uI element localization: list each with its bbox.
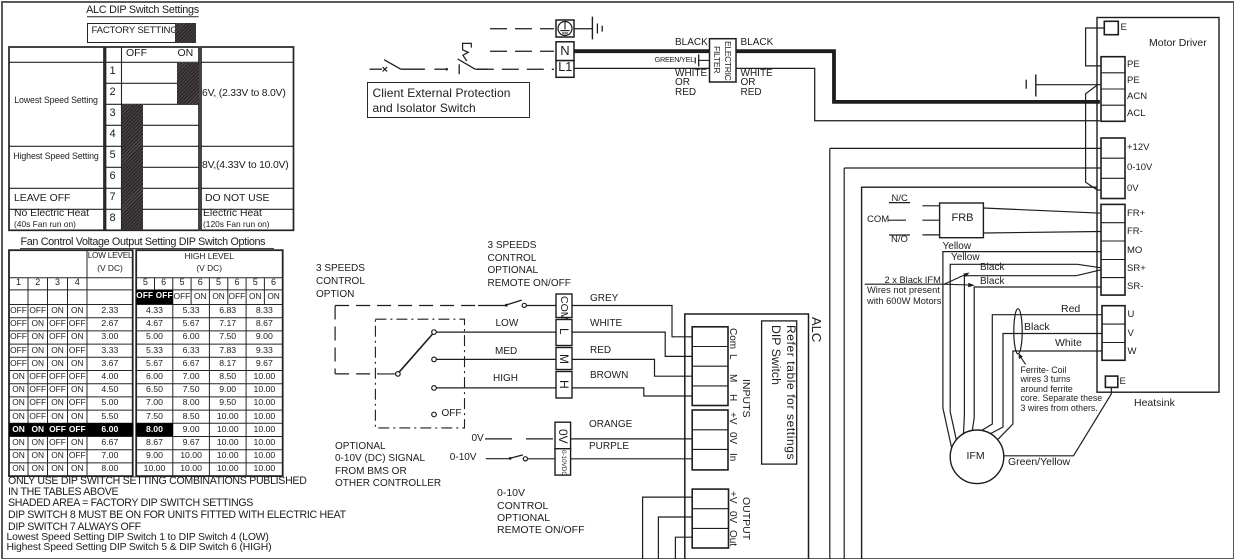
ALC controller box bbox=[685, 314, 809, 559]
wire +12V to ALC (down) bbox=[830, 147, 1101, 149]
dip table: label column box bbox=[9, 47, 104, 230]
wire dashed selector com feed bottom bbox=[335, 373, 379, 375]
wire BROWN H to ALC H bbox=[572, 388, 692, 396]
wire ALC output 0V down bbox=[658, 517, 692, 559]
label line 2x Black IFM bbox=[865, 283, 944, 285]
selector contact OFF bbox=[432, 412, 437, 417]
wire PE to 0V link bbox=[1086, 85, 1102, 190]
voltage table right grid bbox=[136, 250, 283, 476]
row labels bbox=[12, 96, 100, 105]
wire ALC output Out down bbox=[675, 537, 692, 559]
electric filter box bbox=[710, 39, 737, 82]
driver terminals FR/MO/SR bbox=[1101, 204, 1125, 295]
terminal E bottom bbox=[1105, 376, 1117, 387]
client protection note box bbox=[367, 82, 530, 118]
junction dot bbox=[445, 68, 448, 71]
wire dashed selector com feed top bbox=[335, 305, 478, 307]
motor labels bbox=[967, 451, 985, 462]
remote switch blade bbox=[507, 300, 522, 305]
wire ORANGE 0V to ALC 0V bbox=[571, 438, 693, 440]
labels 0V / 0-10V bbox=[472, 434, 484, 444]
wire Black 1 SR+ to IFM bbox=[964, 270, 1102, 434]
info column bbox=[202, 89, 286, 99]
wire BLACK mains thick N to ACN bbox=[574, 51, 1100, 102]
relay labels bbox=[892, 194, 908, 204]
FRB pin stub COM bbox=[922, 219, 939, 221]
selector blade bbox=[399, 334, 432, 372]
terminal earth box bbox=[556, 20, 574, 37]
breaker S2 trip curl bbox=[463, 43, 472, 61]
label BLACK right bbox=[741, 38, 774, 48]
title underline ALC DIP Switch Settings bbox=[87, 16, 199, 18]
terminal COM box bbox=[556, 294, 572, 318]
left terminal rotated labels bbox=[559, 296, 570, 321]
ALC input connector +V/0V/In bbox=[692, 410, 728, 470]
ground symbol (chassis) bbox=[591, 17, 593, 40]
wire RED M to ALC M bbox=[572, 359, 692, 376]
dip table: right info box bbox=[201, 47, 294, 230]
wire PURPLE 0-10V to ALC In bbox=[571, 458, 693, 460]
ALC output connector +V/0V/Out bbox=[692, 489, 728, 548]
driver terminals U/V/W bbox=[1102, 306, 1125, 361]
factory setting hatch swatch bbox=[175, 23, 196, 43]
wire dashed N supply bbox=[490, 50, 554, 52]
terminal L1 box bbox=[556, 61, 574, 78]
wire Green/Yellow E to IFM bbox=[1004, 387, 1112, 455]
voltage table left grid bbox=[9, 250, 133, 476]
motor assembly enclosure box bbox=[862, 187, 1097, 559]
motor IFM circle bbox=[950, 430, 1004, 484]
wire dashed selector com feed left bbox=[334, 306, 336, 374]
factory setting legend box bbox=[87, 23, 196, 43]
wire HIGH contact to H bbox=[436, 387, 556, 389]
driver terminals +12V/0-10V/0V bbox=[1101, 138, 1125, 199]
label WHITE OR RED right bbox=[741, 69, 773, 97]
earth symbol in circle bbox=[558, 22, 572, 36]
wire WHITE L to ALC L bbox=[572, 332, 692, 356]
breaker S2 right lead bbox=[475, 68, 488, 70]
ground symbol at PE bbox=[1025, 80, 1027, 89]
label GREEN/YEL bbox=[655, 56, 695, 63]
arrow to Black wire 2 bbox=[944, 283, 970, 286]
wire dashed 0V lead bbox=[485, 438, 555, 440]
terminal M box bbox=[556, 348, 572, 370]
dip table: switch column box bbox=[106, 47, 200, 230]
green/yel earth symbol bbox=[694, 57, 696, 63]
terminal N box bbox=[556, 42, 574, 61]
remote switch left lead bbox=[478, 305, 505, 307]
title underline Fan Control Voltage bbox=[20, 248, 274, 250]
wire selector common lead bbox=[379, 373, 396, 375]
wire ALC output +V down bbox=[643, 497, 693, 559]
switch S1 blade bbox=[384, 60, 401, 69]
N/O contact line bbox=[889, 234, 910, 236]
wire GREY COM to ALC Com bbox=[572, 306, 692, 337]
factory-setting highlighted row bbox=[9, 423, 133, 436]
ALC input connector Com/L/M/H bbox=[692, 327, 728, 406]
ALC rotated labels bbox=[810, 317, 823, 342]
wire Yellow 2 SR+ to IFM bbox=[950, 264, 1101, 439]
terminal labels N L1 bbox=[560, 44, 569, 57]
wire 0-10V to ALC (down) bbox=[844, 167, 1101, 169]
wire between switches bbox=[434, 68, 445, 70]
note optional bms bbox=[335, 441, 441, 491]
driver terminals PE/PE/ACN/ACL bbox=[1101, 57, 1125, 122]
note 0-10V control bbox=[497, 487, 585, 536]
0-10V switch pivot dot bbox=[509, 457, 512, 460]
selector position labels bbox=[496, 319, 519, 329]
wire dashed earth supply bbox=[490, 28, 554, 30]
0-10V switch contact bbox=[523, 457, 527, 461]
DIP switch note box bbox=[762, 321, 797, 464]
table: Fan Control Voltage Output Setting DIP Switch Options bbox=[21, 237, 266, 248]
filter rotated text bbox=[723, 41, 732, 80]
wire E to PE bbox=[1086, 28, 1105, 66]
terminal 0-10VDC box bbox=[555, 449, 571, 475]
wire green/yel to filter bbox=[699, 59, 710, 61]
wire Black V to IFM bbox=[991, 334, 1103, 434]
wire 0-10V lead bbox=[486, 458, 509, 460]
factory OFF OFF black cell bbox=[136, 290, 173, 305]
breaker S2 blade bbox=[458, 59, 476, 69]
note 3 speeds remote bbox=[488, 240, 539, 278]
wire ground to PE bbox=[1036, 84, 1102, 86]
motor wire labels bbox=[943, 242, 972, 252]
wire White W to IFM bbox=[998, 351, 1102, 440]
remote switch pivot dot bbox=[505, 304, 508, 307]
ferrite coil loop bbox=[1014, 309, 1022, 354]
ferrite note bbox=[1021, 366, 1103, 414]
wire earth box to ground bbox=[574, 28, 592, 30]
terminal E top bbox=[1104, 21, 1118, 34]
wire LOW contact to L bbox=[436, 331, 556, 333]
FRB pin stub N/C bbox=[922, 205, 939, 207]
notes under tables bbox=[8, 476, 307, 487]
switch S1 cross mark bbox=[383, 67, 388, 71]
selector switch SW3 bbox=[396, 372, 401, 377]
remote switch contact bbox=[522, 303, 526, 307]
wire WHITE/RED L1 to ACL bbox=[574, 68, 1100, 120]
dip switches 3-8 OFF hatch bbox=[122, 104, 143, 230]
wire remote switch to COM bbox=[527, 305, 557, 307]
label BLACK left bbox=[675, 38, 708, 48]
motor driver box bbox=[1097, 18, 1219, 393]
selector contact HIGH bbox=[432, 386, 437, 391]
wire color labels bbox=[590, 294, 618, 304]
0-10V switch blade bbox=[511, 455, 523, 458]
terminal L box bbox=[556, 320, 572, 346]
arrow to Black wire 1 bbox=[944, 274, 966, 284]
note 3 speeds control option bbox=[316, 263, 365, 302]
selector contact LOW bbox=[432, 330, 437, 335]
relay FRB box bbox=[940, 203, 984, 238]
ferrite note arrow bbox=[1020, 357, 1025, 365]
selector contact MED bbox=[432, 357, 437, 362]
breaker S2 contact tick bbox=[458, 64, 460, 74]
wire 0-10V switch to terminal bbox=[528, 458, 556, 460]
switch S1 right lead bbox=[401, 68, 425, 70]
driver terminal labels bbox=[1121, 23, 1127, 33]
wire Red U to IFM bbox=[982, 315, 1102, 431]
terminal 0V box bbox=[555, 422, 571, 449]
wire FRB to FR+ bbox=[983, 208, 1101, 213]
COM contact line bbox=[888, 219, 906, 221]
wire Black 2 SR- to IFM bbox=[972, 287, 1101, 430]
dip switches 1-2 ON hatch bbox=[177, 63, 199, 105]
wire dashed L1 supply bbox=[477, 68, 554, 70]
switch S1 isolator left lead bbox=[370, 68, 382, 70]
terminal H box bbox=[556, 372, 572, 399]
table: ALC DIP Switch Settings title bbox=[86, 5, 199, 16]
wire MED contact to M bbox=[436, 358, 556, 360]
N/C contact line bbox=[889, 202, 910, 204]
FRB pin stub N/O bbox=[922, 234, 939, 236]
label WHITE OR RED left bbox=[675, 69, 707, 97]
DIP switch note rotated bbox=[770, 325, 782, 385]
wire Yellow 1 MO to IFM bbox=[943, 252, 1101, 448]
wire FRB to FR- bbox=[983, 232, 1101, 234]
selector enclosure dash-dot box bbox=[375, 319, 464, 428]
